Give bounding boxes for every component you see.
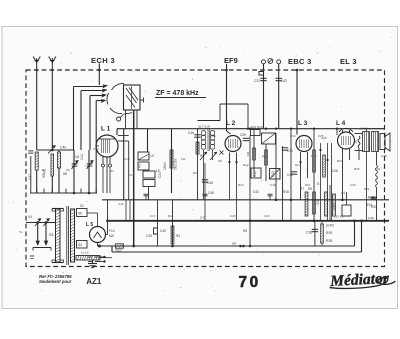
svg-text:C43: C43 (270, 183, 276, 187)
svg-text:~: ~ (19, 230, 23, 236)
svg-text:C40: C40 (253, 190, 259, 194)
svg-text:S1: S1 (49, 232, 55, 237)
svg-text:C44: C44 (80, 154, 84, 160)
svg-text:Lo L6: Lo L6 (81, 251, 89, 255)
svg-text:R16: R16 (283, 190, 289, 194)
svg-text:C16: C16 (210, 134, 216, 138)
svg-text:C48: C48 (381, 154, 387, 158)
svg-text:ECH 3: ECH 3 (91, 56, 115, 65)
svg-text:R40: R40 (368, 196, 374, 200)
svg-text:C49: C49 (160, 229, 166, 233)
svg-text:1W: 1W (181, 157, 186, 161)
svg-text:R15: R15 (253, 171, 257, 177)
svg-text:R23: R23 (337, 159, 343, 163)
svg-text:R27: R27 (116, 249, 122, 253)
svg-text:R9: R9 (308, 187, 312, 191)
svg-text:R25: R25 (354, 167, 360, 171)
svg-text:C45: C45 (146, 234, 152, 238)
svg-text:R20: R20 (311, 154, 317, 158)
svg-text:R7: R7 (300, 187, 304, 191)
svg-text:L10: L10 (375, 167, 380, 171)
svg-text:C28: C28 (332, 169, 338, 173)
svg-text:N8: N8 (232, 242, 236, 246)
svg-text:L33 R3: L33 R3 (334, 215, 344, 219)
svg-text:C31: C31 (287, 149, 293, 153)
svg-text:25kΩ: 25kΩ (163, 162, 167, 170)
svg-text:R3: R3 (138, 164, 142, 168)
svg-text:C30: C30 (350, 183, 356, 187)
svg-text:S2: S2 (80, 204, 84, 208)
svg-text:R11 R13: R11 R13 (251, 125, 263, 129)
svg-text:C5: C5 (66, 168, 70, 172)
svg-text:F10: F10 (109, 229, 115, 233)
svg-text:EL 3: EL 3 (340, 57, 357, 66)
svg-text:C48: C48 (207, 181, 213, 185)
svg-text:L 4: L 4 (336, 120, 346, 127)
svg-text:S: S (354, 139, 357, 144)
svg-text:5kΩ 1W: 5kΩ 1W (174, 159, 178, 170)
svg-text:C36: C36 (306, 231, 312, 235)
svg-text:C37: C37 (254, 79, 260, 83)
svg-text:L8 L9: L8 L9 (360, 127, 368, 131)
svg-text:1M: 1M (246, 151, 250, 156)
svg-text:R17: R17 (295, 163, 301, 167)
svg-text:R2: R2 (193, 171, 197, 175)
svg-text:C3: C3 (42, 168, 46, 172)
svg-text:C47: C47 (200, 216, 206, 220)
svg-text:L 3: L 3 (298, 120, 308, 127)
svg-text:L9: L9 (151, 154, 155, 158)
svg-text:Pho: Pho (262, 155, 268, 159)
svg-text:S6: S6 (218, 159, 222, 163)
svg-text:S18: S18 (316, 199, 320, 205)
svg-text:L 2: L 2 (226, 120, 236, 127)
svg-text:C15: C15 (118, 202, 124, 206)
svg-text:C10: C10 (124, 157, 130, 161)
svg-text:R31: R31 (364, 187, 370, 191)
svg-text:C34: C34 (290, 134, 296, 138)
svg-text:C21: C21 (158, 172, 162, 178)
svg-text:C33: C33 (264, 214, 270, 218)
svg-text:AZ1: AZ1 (86, 277, 102, 286)
svg-text:Seulement pour: Seulement pour (39, 279, 72, 284)
svg-text:L 5: L 5 (86, 222, 93, 228)
svg-text:C6: C6 (75, 155, 79, 159)
svg-text:C48: C48 (208, 191, 214, 195)
svg-text:C39: C39 (240, 133, 246, 137)
svg-text:C17: C17 (150, 214, 156, 218)
svg-text:R6: R6 (243, 229, 247, 233)
svg-text:R4: R4 (168, 214, 172, 218)
svg-text:C44: C44 (93, 147, 99, 151)
svg-text:R12: R12 (243, 163, 249, 167)
svg-text:50: 50 (78, 212, 82, 216)
svg-text:C13: C13 (129, 173, 135, 177)
svg-text:R4: R4 (176, 234, 180, 238)
svg-text:C41: C41 (287, 173, 293, 177)
svg-text:R21: R21 (305, 183, 311, 187)
svg-text:R39: R39 (326, 231, 332, 235)
svg-text:S4: S4 (28, 215, 32, 219)
svg-text:L 1: L 1 (101, 126, 111, 133)
svg-text:R14: R14 (238, 183, 244, 187)
svg-text:C4: C4 (341, 191, 345, 195)
svg-text:S3: S3 (78, 243, 82, 247)
svg-text:C29: C29 (230, 214, 236, 218)
svg-text:R33: R33 (371, 205, 377, 209)
svg-text:EF9: EF9 (224, 56, 238, 65)
svg-text:C46: C46 (188, 131, 194, 135)
svg-text:ZF = 478 kHz: ZF = 478 kHz (156, 90, 199, 97)
svg-text:R35: R35 (326, 239, 332, 243)
svg-text:C42: C42 (281, 79, 287, 83)
svg-text:C48: C48 (368, 216, 374, 220)
svg-text:Médiator: Médiator (329, 270, 390, 290)
svg-text:C40: C40 (60, 146, 66, 150)
svg-text:R1: R1 (110, 169, 114, 173)
svg-text:EBC 3: EBC 3 (288, 57, 312, 66)
svg-text:C47: C47 (28, 174, 32, 180)
svg-text:(C40): (C40) (326, 224, 334, 228)
svg-text:C25: C25 (318, 134, 324, 138)
svg-text:S17 S18: S17 S18 (198, 125, 210, 129)
svg-text:5Ω: 5Ω (63, 172, 68, 176)
svg-text:70: 70 (239, 274, 261, 291)
